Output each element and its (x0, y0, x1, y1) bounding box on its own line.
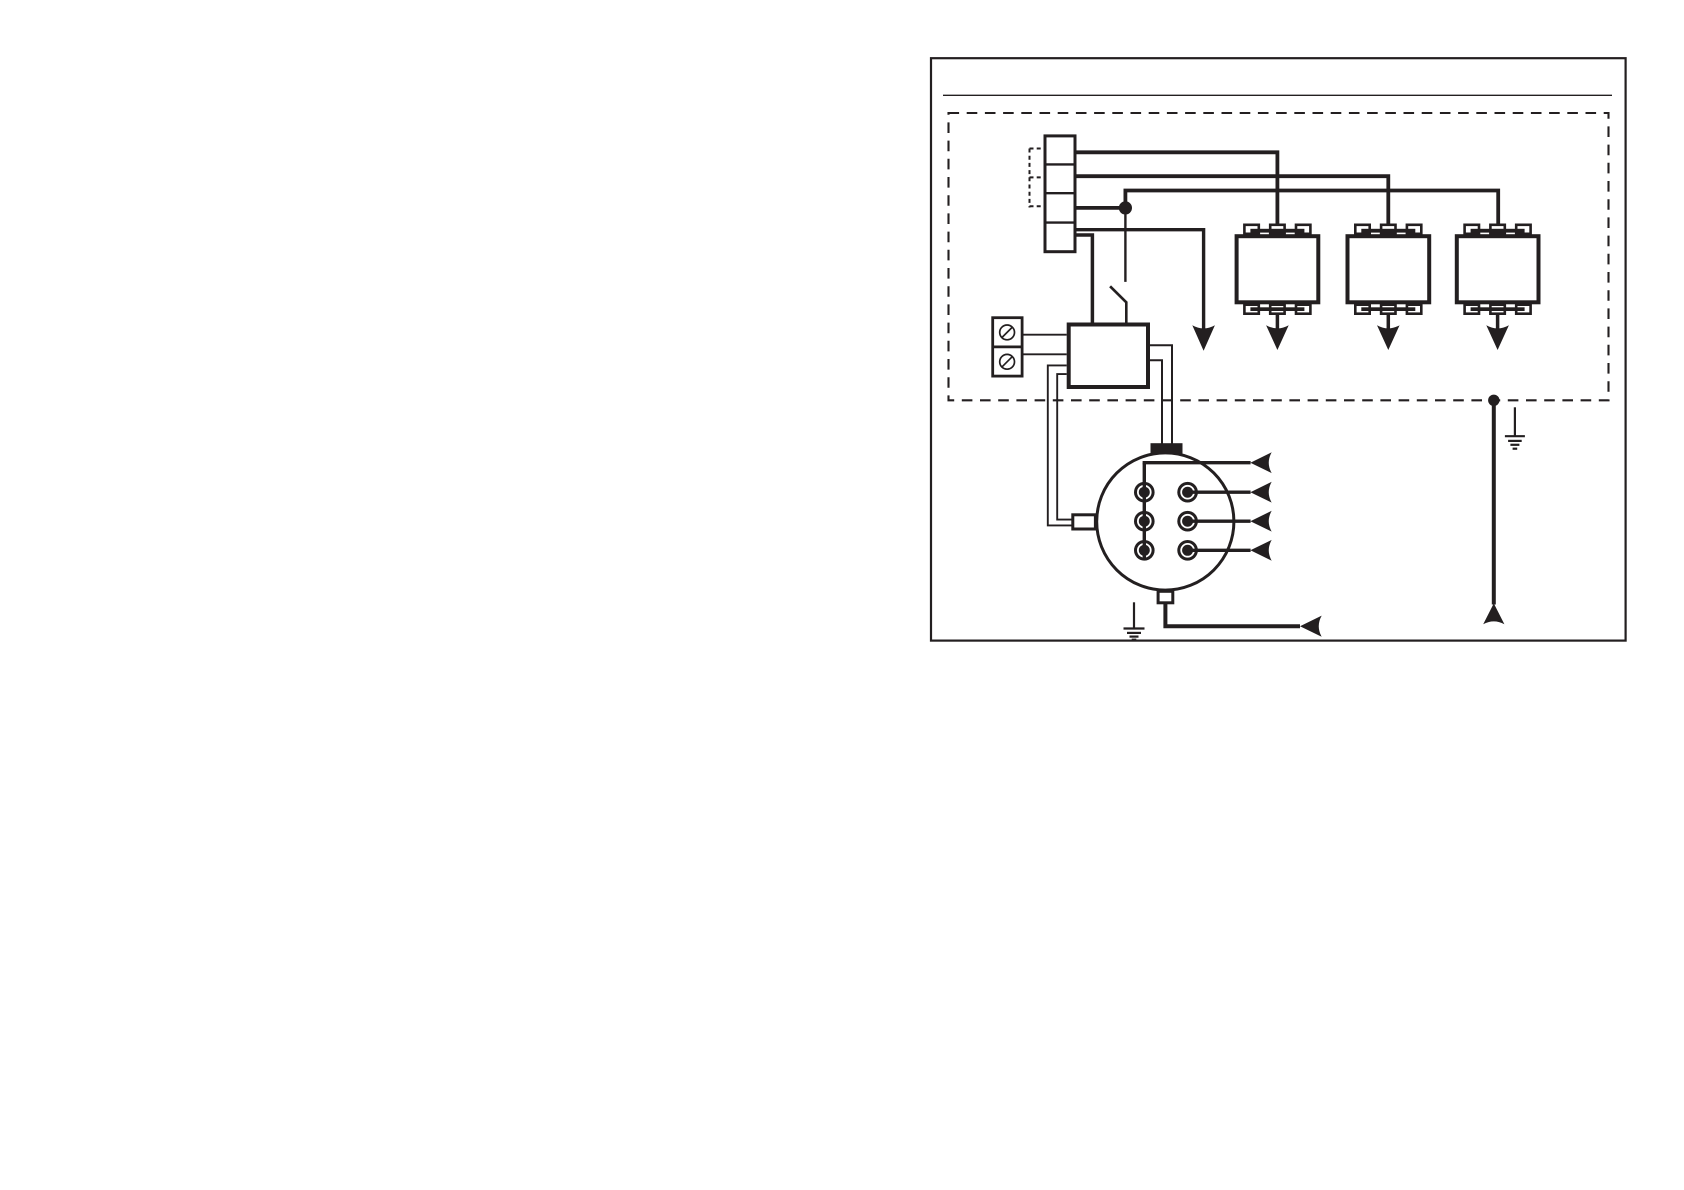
switch S1 (1110, 208, 1126, 323)
arrow to chassis ground (up) (1483, 603, 1504, 624)
wire: control unit to distributor cap (outer) (1150, 345, 1172, 444)
junction A (node) (1119, 201, 1132, 214)
arrow below coil module 2 (1377, 325, 1400, 350)
dashed enclosure boundary (949, 113, 1609, 400)
distributor pickup tab (1073, 515, 1096, 529)
wire: contact 5 to spark plug 3 (1188, 520, 1251, 523)
wire: left contacts chain (1143, 463, 1146, 558)
connector block X1 (4-way) (1045, 136, 1075, 252)
wire: contact 6 to spark plug 4 (1188, 549, 1251, 552)
distributor contact 5 (mid-right) (1177, 511, 1198, 532)
distributor contact 6 (bottom-right) (1177, 540, 1198, 561)
wire: contact 4 to spark plug 2 (1188, 491, 1251, 494)
distributor contact 4 (top-right) (1177, 482, 1198, 503)
wire: TB1 terminal 1 to control unit (1023, 334, 1066, 336)
wire: contact chain to spark plug 1 (1143, 461, 1251, 464)
wire: control unit to distributor cap (inner) (1150, 360, 1162, 444)
wire: TB1 terminal 2 to control unit (1023, 353, 1066, 355)
arrow to spark plug 4 (1250, 540, 1271, 561)
control unit U1 (1069, 325, 1148, 388)
wire: enclosure ground to chassis (1492, 400, 1496, 604)
wire: pin3 to junction A (1077, 206, 1126, 210)
wire: pin4 to harness arrow (1077, 230, 1204, 332)
dashed harness bracket at connector (1030, 149, 1045, 208)
distributor body (1097, 453, 1234, 590)
arrow to spark plug 3 (1250, 511, 1271, 532)
arrow to spark plug 2 (1250, 482, 1271, 503)
ground node on enclosure boundary (1488, 395, 1499, 406)
arrow to tachometer (1300, 616, 1322, 637)
arrow below coil module 3 (1486, 325, 1509, 350)
top rule (943, 94, 1612, 96)
arrow to spark plug 1 (1250, 452, 1271, 473)
coil module 3 (1457, 225, 1539, 332)
wire: distributor bottom terminal to tachometer (1165, 603, 1300, 626)
coil module 2 (1348, 225, 1430, 332)
coil module 1 (1237, 225, 1319, 332)
wire: control unit to distributor pickup (outer) (1048, 365, 1072, 525)
wire: junction A to coil module 3 (1125, 191, 1498, 234)
screw terminal block TB1 (992, 318, 1023, 376)
figure frame (931, 58, 1626, 640)
distributor cap terminal (black) (1151, 443, 1183, 454)
ground symbol at distributor (1124, 602, 1145, 639)
screw terminal 2 (1000, 354, 1015, 369)
distributor bottom terminal (1158, 591, 1173, 603)
arrow below coil module 1 (1266, 325, 1289, 350)
wire: pin2 to coil module 2 (1077, 176, 1389, 233)
wire: pin5 down to control unit (1077, 235, 1093, 323)
screw terminal 1 (1000, 325, 1015, 340)
distributor contact 1 (top-left) (1134, 482, 1155, 503)
ground symbol at enclosure (1505, 407, 1525, 448)
wire: pin1 to coil module 1 (1077, 152, 1278, 233)
arrow to harness (down) (1192, 325, 1215, 351)
distributor contact 3 (bottom-left) (1134, 540, 1155, 561)
wire: control unit to distributor pickup (inner) (1057, 374, 1072, 519)
distributor contact 2 (mid-left) (1134, 511, 1155, 532)
